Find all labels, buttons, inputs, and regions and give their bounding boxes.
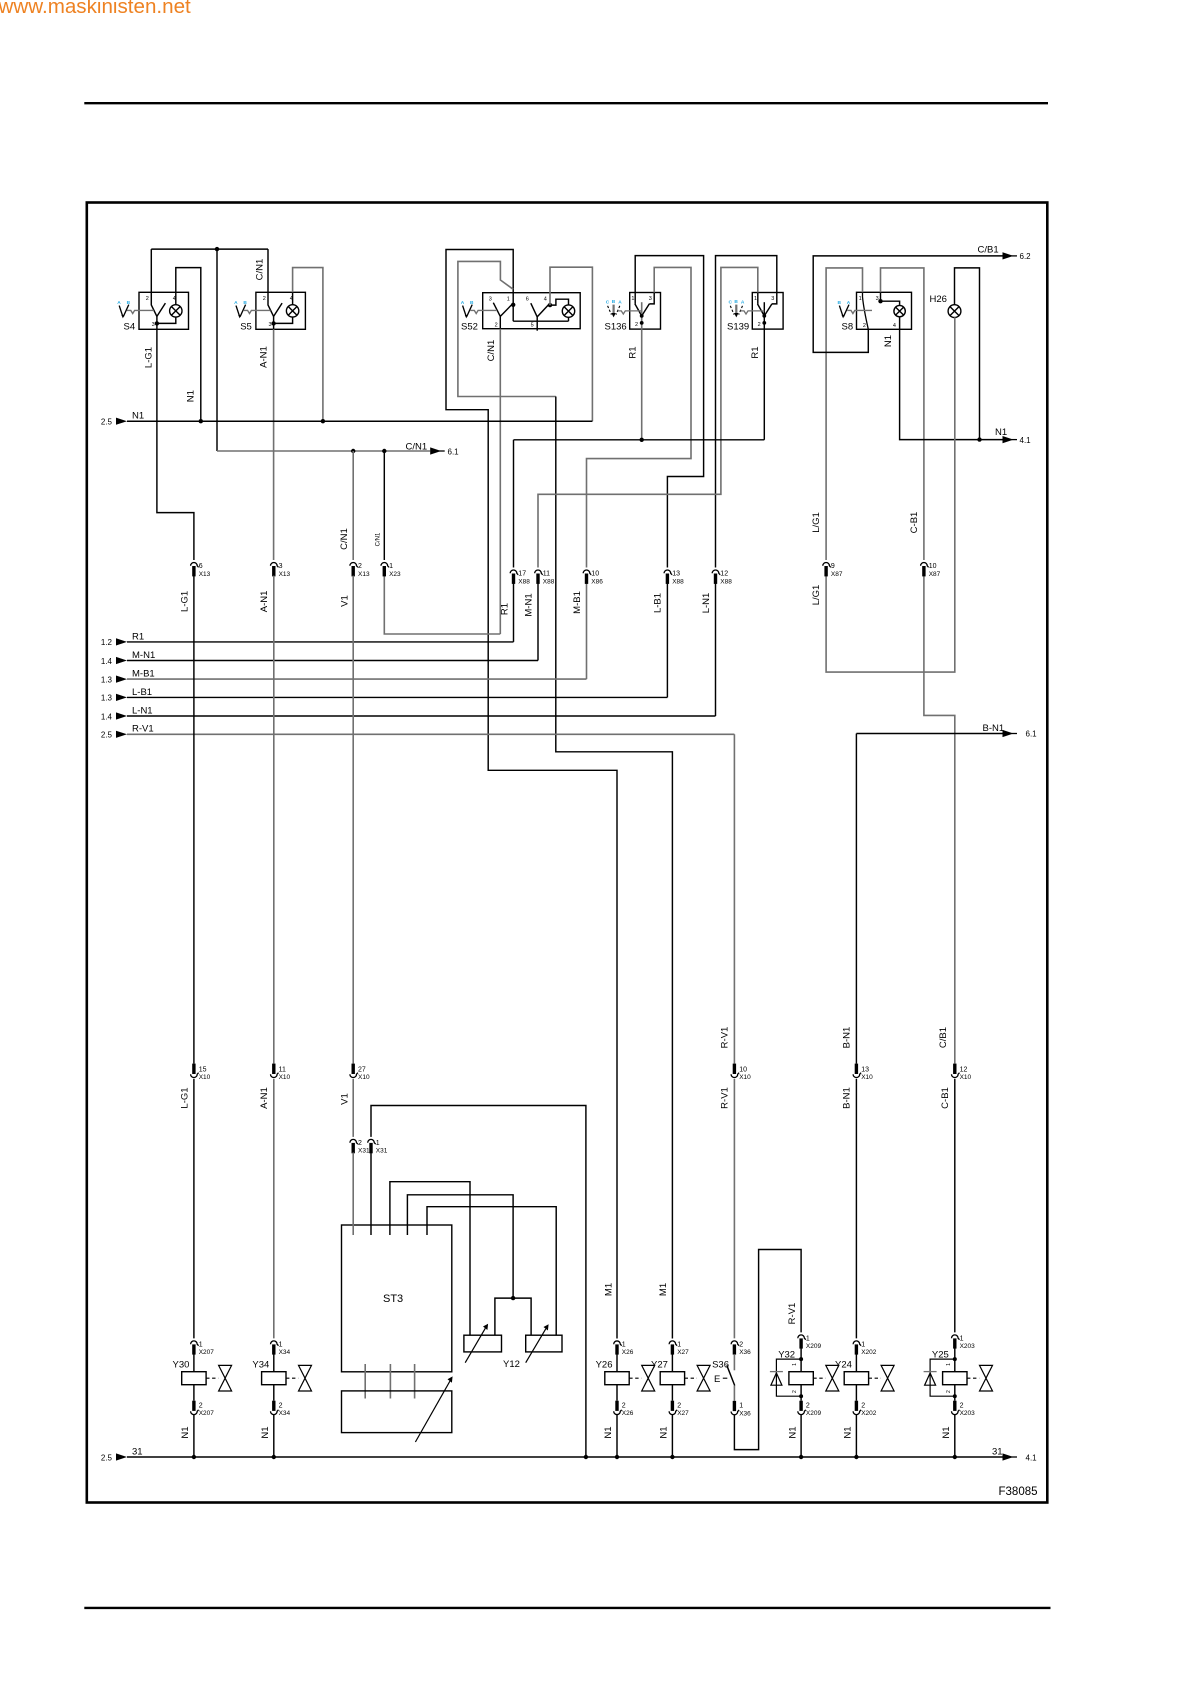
svg-text:M-B1: M-B1: [572, 591, 583, 614]
sheet arrow N1 4.1: [1003, 436, 1014, 443]
svg-text:1.3: 1.3: [101, 675, 113, 684]
svg-text:1: 1: [622, 1342, 626, 1349]
connector X10-13: [853, 1064, 861, 1078]
svg-text:10: 10: [929, 563, 937, 570]
svg-text:R-V1: R-V1: [720, 1027, 731, 1049]
svg-text:Y34: Y34: [252, 1360, 269, 1371]
wire C/N1 down: [216, 249, 218, 451]
svg-text:2.5: 2.5: [101, 1453, 113, 1462]
svg-text:L/G1: L/G1: [811, 512, 822, 533]
svg-text:1: 1: [389, 563, 393, 570]
wire L-G1 to Y30: [193, 1079, 195, 1339]
svg-text:S52: S52: [461, 321, 478, 332]
svg-text:A-N1: A-N1: [259, 346, 270, 368]
wire S52 pin1 grey route: [458, 261, 556, 396]
svg-text:2: 2: [358, 563, 362, 570]
svg-text:L-N1: L-N1: [132, 705, 153, 716]
svg-text:M-N1: M-N1: [524, 593, 535, 616]
connector X10-12: [952, 1064, 960, 1078]
wire S4 lamp to N1 bus: [176, 268, 201, 422]
svg-text:N1: N1: [883, 335, 894, 347]
svg-text:M1: M1: [658, 1283, 669, 1296]
svg-text:4.1: 4.1: [1020, 436, 1032, 445]
wire N1 Y24 to ground bus: [855, 1415, 857, 1457]
svg-text:2: 2: [199, 1402, 203, 1409]
svg-text:X26: X26: [622, 1410, 634, 1417]
svg-text:X36: X36: [739, 1410, 751, 1417]
svg-text:X88: X88: [543, 578, 555, 585]
svg-text:X34: X34: [279, 1349, 291, 1356]
connector X87-9: [823, 562, 831, 576]
svg-text:S36: S36: [712, 1360, 729, 1371]
switch S136 contact: [635, 304, 642, 316]
svg-text:X13: X13: [358, 571, 370, 578]
switch S136 box: [630, 293, 661, 330]
transducer Y12 right element: [526, 1335, 562, 1352]
svg-text:S5: S5: [240, 321, 252, 332]
wire C-B1 to Y25: [954, 1079, 956, 1333]
svg-text:N1: N1: [843, 1426, 854, 1438]
wire S139 pin3 route to X88-12: [716, 256, 777, 568]
svg-text:A: A: [618, 300, 622, 306]
wire S4 pin 2 up: [150, 249, 152, 292]
svg-text:1: 1: [792, 1363, 798, 1366]
svg-text:3: 3: [152, 322, 155, 328]
svg-text:1.2: 1.2: [101, 638, 113, 647]
svg-text:1: 1: [859, 296, 862, 302]
switch S139 box: [752, 293, 783, 330]
svg-text:R-V1: R-V1: [720, 1087, 731, 1109]
connector X202-1: [853, 1341, 861, 1355]
svg-text:Y26: Y26: [596, 1360, 613, 1371]
wire S8 pin4 N1 to sheet arrow: [900, 329, 1003, 439]
wire N1 Y27 to ground bus: [671, 1415, 673, 1457]
svg-text:17: 17: [518, 571, 526, 578]
svg-text:1: 1: [631, 296, 634, 302]
svg-text:X202: X202: [861, 1349, 877, 1356]
svg-text:N1: N1: [186, 390, 197, 402]
connector X202-2: [853, 1401, 861, 1415]
svg-text:3: 3: [279, 563, 283, 570]
switch S8 box: [857, 292, 912, 329]
svg-text:N1: N1: [787, 1426, 798, 1438]
switch S139 contact: [758, 304, 765, 316]
svg-text:Y12: Y12: [503, 1359, 520, 1370]
svg-text:S136: S136: [605, 322, 627, 333]
connector X88-13: [664, 570, 672, 584]
svg-text:C: C: [729, 300, 733, 306]
connector X26-2: [614, 1401, 622, 1415]
svg-text:10: 10: [591, 571, 599, 578]
svg-text:R1: R1: [500, 603, 511, 615]
svg-text:2: 2: [946, 1390, 952, 1393]
svg-text:1.3: 1.3: [101, 694, 113, 703]
wire N1 Y25 to ground bus: [954, 1415, 956, 1457]
wire S8 pin3 to lamp: [880, 292, 882, 301]
svg-text:1: 1: [199, 1342, 203, 1349]
bottom rule: [84, 1607, 1050, 1609]
svg-text:2: 2: [863, 323, 866, 329]
svg-text:1: 1: [739, 1403, 743, 1410]
svg-text:1: 1: [279, 1342, 283, 1349]
svg-text:M-N1: M-N1: [132, 650, 155, 661]
wire ST3 pin4 rail: [407, 1195, 513, 1298]
svg-text:N1: N1: [603, 1426, 614, 1438]
wire C/N1 horizontal: [217, 450, 430, 452]
wire C/N1 X23 link: [384, 576, 500, 634]
svg-text:11: 11: [543, 571, 550, 578]
svg-text:L-N1: L-N1: [701, 593, 712, 614]
node S8 pin 3: [878, 299, 882, 303]
svg-text:6.1: 6.1: [448, 447, 460, 456]
wire B-N1 to sheet arrow: [856, 733, 1002, 735]
connector X10-27: [350, 1064, 358, 1078]
wire X31-1 riser to 31 bus: [371, 1106, 586, 1458]
svg-text:Y30: Y30: [172, 1360, 189, 1371]
svg-text:A: A: [461, 300, 465, 306]
wire R1 cross link: [514, 439, 765, 441]
ST3 bottom pins: [364, 1364, 366, 1399]
switch S5 box: [256, 292, 306, 329]
svg-text:N1: N1: [941, 1426, 952, 1438]
svg-text:2.5: 2.5: [101, 418, 113, 427]
switch S4 contact: [151, 292, 157, 316]
wire S136 pin1 route to X88-13: [635, 256, 703, 568]
svg-text:C/N1: C/N1: [376, 532, 382, 546]
svg-text:2: 2: [146, 296, 149, 302]
svg-text:X34: X34: [279, 1410, 291, 1417]
node S52 pin 4: [548, 303, 552, 307]
connector X88-11: [535, 570, 543, 584]
svg-text:X207: X207: [199, 1349, 215, 1356]
wire R1 from S139 pin2: [763, 329, 765, 440]
svg-text:X13: X13: [279, 571, 291, 578]
switch S52 contact 1: [493, 303, 500, 317]
svg-text:1: 1: [677, 1342, 681, 1349]
connector X36-1: [731, 1401, 739, 1415]
connector X13-6: [191, 563, 199, 577]
connector X13-2: [350, 562, 358, 576]
svg-text:1: 1: [376, 1140, 380, 1147]
node S5 pin 3: [271, 321, 275, 325]
connector X26-1: [614, 1341, 622, 1355]
wire V1 long: [352, 576, 354, 1064]
potentiometer box under ST3: [342, 1391, 452, 1433]
wire S139 pin 2 actuator: [763, 302, 765, 329]
switch S52 box: [483, 293, 581, 329]
sheet arrow 31 4.1: [1003, 1453, 1014, 1460]
lamp in S4: [170, 305, 182, 317]
svg-text:2: 2: [960, 1402, 964, 1409]
wire N1 Y30 to ground bus: [193, 1415, 195, 1457]
node Y12 feed: [511, 1296, 515, 1300]
svg-text:3: 3: [876, 296, 879, 302]
svg-text:X10: X10: [861, 1074, 873, 1081]
wire S4-S5 top link: [151, 248, 268, 250]
svg-text:C-B1: C-B1: [940, 1087, 951, 1109]
transducer Y12 left element: [464, 1335, 502, 1352]
svg-text:2: 2: [677, 1402, 681, 1409]
connector X10-11: [271, 1064, 279, 1078]
wire Y12 bridge: [495, 1298, 531, 1335]
wire B-N1 down to X10-13: [855, 734, 857, 1064]
svg-text:www.maskinisten.net: www.maskinisten.net: [0, 0, 191, 18]
svg-text:2: 2: [495, 322, 498, 328]
svg-text:1: 1: [754, 296, 757, 302]
svg-text:Y27: Y27: [651, 1360, 668, 1371]
svg-text:31: 31: [992, 1446, 1003, 1457]
wire S5 lamp to N1 bus: [293, 268, 323, 422]
svg-text:2: 2: [758, 322, 761, 328]
svg-text:1: 1: [861, 1342, 865, 1349]
switch S5 contact: [268, 292, 274, 316]
svg-text:31: 31: [132, 1446, 143, 1457]
svg-text:X87: X87: [929, 571, 941, 578]
svg-text:L-G1: L-G1: [143, 347, 154, 368]
wire N1 Y34 to ground bus: [273, 1415, 275, 1457]
svg-text:E: E: [714, 1374, 720, 1385]
wire C-B1 to X10-12: [924, 576, 955, 1064]
svg-text:A: A: [117, 300, 121, 306]
connector X36-2: [731, 1341, 739, 1355]
svg-text:13: 13: [672, 571, 680, 578]
svg-text:27: 27: [358, 1066, 366, 1073]
svg-text:L-B1: L-B1: [653, 593, 664, 613]
svg-text:X88: X88: [518, 578, 530, 585]
svg-text:2: 2: [358, 1140, 362, 1147]
wire H26 bottom L/G1 link: [826, 317, 955, 672]
svg-text:R-V1: R-V1: [132, 724, 154, 735]
svg-text:B: B: [612, 299, 616, 305]
wire S136 pin 2 actuator: [641, 302, 643, 329]
svg-text:X31: X31: [376, 1148, 388, 1155]
sheet arrow B-N1 6.1: [1003, 730, 1014, 737]
wire A-N1 to Y34: [273, 1079, 275, 1339]
wire ST3 pin3 rail: [390, 1182, 470, 1336]
svg-text:R-V1: R-V1: [787, 1303, 798, 1325]
node R1 junction: [640, 438, 644, 442]
node H26 N1 junction: [977, 437, 981, 441]
switch S52 contact 2: [531, 303, 537, 317]
svg-text:4: 4: [893, 323, 896, 329]
wire R-V1 to S36: [733, 1079, 735, 1339]
svg-text:X207: X207: [199, 1410, 215, 1417]
svg-text:1: 1: [507, 296, 510, 302]
switch S8 contact: [863, 292, 869, 329]
connector X27-1: [669, 1341, 677, 1355]
svg-text:A-N1: A-N1: [259, 591, 270, 613]
svg-text:1.4: 1.4: [101, 712, 113, 721]
svg-text:M-B1: M-B1: [132, 669, 155, 680]
wire B-N1 to Y24: [855, 1079, 857, 1339]
connector X207-2: [191, 1401, 199, 1415]
controller ST3 box: [342, 1225, 452, 1372]
wire S52 pin4 step to lamp: [550, 299, 569, 305]
wire S8 pin3 C-B1 route: [881, 268, 924, 560]
wire S8 pin1 L/G1 route: [826, 268, 862, 560]
svg-text:10: 10: [739, 1066, 747, 1073]
lamp in S5: [286, 305, 298, 317]
svg-text:X88: X88: [672, 578, 684, 585]
svg-text:L-B1: L-B1: [132, 687, 152, 698]
connector X10-15: [191, 1064, 199, 1078]
wire S52 pin1 node to lamp return: [512, 293, 514, 322]
svg-text:S4: S4: [124, 321, 136, 332]
wire H26 top to N1: [955, 268, 980, 440]
svg-text:X88: X88: [720, 578, 732, 585]
svg-text:6: 6: [526, 296, 529, 302]
connector X31-2: [350, 1139, 358, 1153]
svg-text:C/B1: C/B1: [938, 1027, 949, 1048]
svg-text:X27: X27: [677, 1349, 689, 1356]
switch S4 box: [139, 292, 189, 329]
svg-text:A: A: [234, 300, 238, 306]
svg-text:C/N1: C/N1: [255, 259, 266, 281]
svg-text:4.1: 4.1: [1026, 1453, 1038, 1462]
svg-text:S139: S139: [727, 322, 749, 333]
svg-text:1: 1: [946, 1363, 952, 1366]
svg-text:3: 3: [649, 296, 652, 302]
svg-text:11: 11: [279, 1066, 286, 1073]
svg-text:N1: N1: [659, 1426, 670, 1438]
node C/N1 tap: [215, 247, 219, 251]
svg-text:X86: X86: [591, 578, 603, 585]
wire S52 pin1 top route black: [446, 250, 617, 1339]
svg-text:N1: N1: [260, 1426, 271, 1438]
svg-text:N1: N1: [180, 1426, 191, 1438]
svg-text:9: 9: [831, 563, 835, 570]
svg-text:V1: V1: [340, 595, 351, 607]
svg-text:V1: V1: [340, 1093, 351, 1105]
svg-text:X31: X31: [358, 1148, 370, 1155]
svg-text:X203: X203: [960, 1410, 976, 1417]
lamp H26: [948, 305, 961, 318]
svg-text:X202: X202: [861, 1410, 877, 1417]
svg-text:13: 13: [861, 1066, 869, 1073]
wire S8 pin2 to C/B1 line: [813, 256, 1002, 353]
svg-text:X87: X87: [831, 571, 843, 578]
svg-text:12: 12: [960, 1066, 968, 1073]
connector X34-1: [271, 1341, 279, 1355]
svg-text:15: 15: [199, 1066, 207, 1073]
svg-text:B-N1: B-N1: [842, 1087, 853, 1109]
bus 31 junctions: [192, 1455, 196, 1459]
svg-text:B: B: [734, 299, 738, 305]
svg-text:5: 5: [531, 322, 534, 328]
svg-text:X10: X10: [279, 1074, 291, 1081]
connector X203-1: [952, 1335, 960, 1349]
svg-text:3: 3: [269, 322, 272, 328]
lamp in S8: [894, 305, 905, 316]
svg-text:3: 3: [771, 296, 774, 302]
svg-text:F38085: F38085: [999, 1486, 1038, 1498]
top rule: [84, 102, 1048, 104]
svg-text:ST3: ST3: [383, 1293, 403, 1305]
wire C/N1 to X23-1: [383, 451, 385, 560]
svg-text:X10: X10: [199, 1074, 211, 1081]
svg-text:L-G1: L-G1: [180, 591, 191, 612]
connector X34-2: [271, 1401, 279, 1415]
wire S136 pin3 route to X86-10: [587, 267, 692, 567]
connector X27-2: [669, 1401, 677, 1415]
node X23 tap: [382, 449, 386, 453]
node V1 tap: [351, 449, 355, 453]
connector X209-1: [798, 1335, 806, 1349]
svg-text:S8: S8: [842, 322, 854, 333]
svg-text:X10: X10: [358, 1074, 370, 1081]
connector X23-1: [381, 562, 389, 576]
connector X87-10: [921, 562, 929, 576]
wire R-V1 down to X10-10: [733, 734, 735, 1063]
svg-text:C/N1: C/N1: [486, 340, 497, 362]
wire S36 to Y32 feed: [734, 1250, 801, 1450]
svg-text:2: 2: [263, 296, 266, 302]
sheet arrow C/B1 6.2: [1003, 252, 1014, 259]
svg-text:R1: R1: [628, 346, 639, 358]
svg-text:X26: X26: [622, 1349, 634, 1356]
svg-text:C/N1: C/N1: [406, 441, 428, 452]
svg-text:B-N1: B-N1: [983, 723, 1005, 734]
svg-text:4: 4: [544, 296, 547, 302]
svg-text:L-G1: L-G1: [180, 1087, 191, 1108]
svg-text:N1: N1: [132, 411, 144, 422]
svg-text:X10: X10: [960, 1074, 972, 1081]
svg-text:X23: X23: [389, 571, 401, 578]
wire L-G1 from S4 pin 3: [157, 329, 194, 560]
svg-text:6: 6: [199, 563, 203, 570]
svg-text:6.2: 6.2: [1020, 252, 1032, 261]
svg-text:A-N1: A-N1: [259, 1087, 270, 1109]
wire C/N1 S52 pin 2 down: [499, 329, 501, 634]
connector X209-2: [798, 1401, 806, 1415]
svg-text:12: 12: [720, 571, 728, 578]
svg-text:1: 1: [960, 1336, 964, 1343]
svg-text:A: A: [741, 300, 745, 306]
wire S52 pin4 to N1 bus corner: [550, 267, 592, 421]
svg-text:2: 2: [635, 322, 638, 328]
wire A-N1 long: [273, 576, 275, 1064]
connector X88-17: [510, 570, 518, 584]
svg-text:6.1: 6.1: [1026, 730, 1038, 739]
svg-text:C/B1: C/B1: [978, 245, 999, 256]
svg-text:2: 2: [792, 1390, 798, 1393]
connector X203-2: [952, 1401, 960, 1415]
svg-text:X36: X36: [739, 1349, 751, 1356]
svg-text:X10: X10: [739, 1074, 751, 1081]
connector X13-3: [271, 562, 279, 576]
connector X207-1: [191, 1341, 199, 1355]
svg-text:X209: X209: [806, 1410, 822, 1417]
connector X88-12: [712, 570, 720, 584]
wire N1 Y32 to ground bus: [800, 1415, 802, 1457]
svg-text:Y24: Y24: [835, 1360, 852, 1371]
connector X86-10: [583, 570, 591, 584]
svg-text:C/N1: C/N1: [339, 528, 350, 550]
svg-text:C-B1: C-B1: [909, 512, 920, 534]
svg-text:X203: X203: [960, 1343, 976, 1350]
svg-text:B: B: [838, 300, 842, 306]
svg-text:B-N1: B-N1: [842, 1027, 853, 1049]
svg-text:2: 2: [739, 1342, 743, 1349]
svg-text:X13: X13: [199, 571, 211, 578]
wire R1 from S136 pin2: [641, 329, 643, 440]
svg-text:2: 2: [806, 1402, 810, 1409]
svg-text:2: 2: [622, 1402, 626, 1409]
svg-text:2: 2: [861, 1402, 865, 1409]
svg-text:N1: N1: [995, 427, 1007, 438]
lamp in S52: [562, 305, 574, 317]
svg-text:X209: X209: [806, 1343, 822, 1350]
